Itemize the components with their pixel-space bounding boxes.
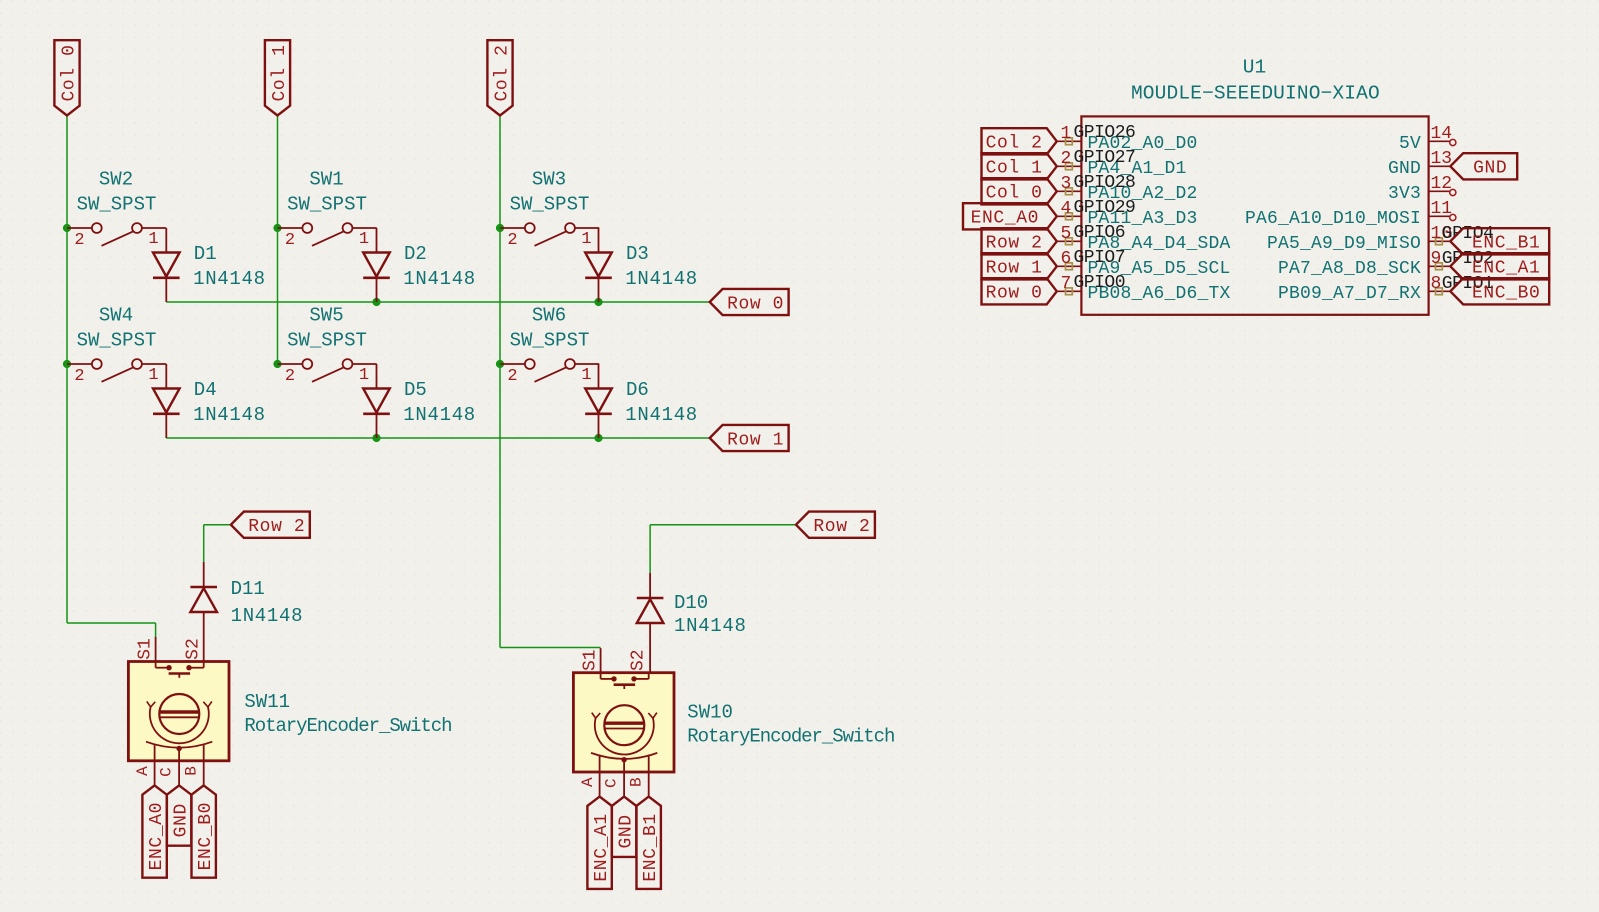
U1 pin 5 (PA8_A4_D4_SDA) [1057,224,1231,254]
svg-text:2: 2 [74,367,84,386]
svg-text:2: 2 [285,367,295,386]
svg-text:1N4148: 1N4148 [625,404,698,426]
svg-text:D6: D6 [626,379,649,401]
hierarchical label Col 1 (top) [265,40,290,115]
svg-text:A: A [134,766,152,776]
svg-text:B: B [182,766,200,776]
wire Row 0 [166,301,709,303]
svg-text:1N4148: 1N4148 [193,268,266,290]
svg-text:8: 8 [1431,274,1442,294]
svg-text:14: 14 [1431,124,1453,144]
junction Row0/D3 [594,298,602,306]
svg-text:Col 1: Col 1 [270,44,290,101]
svg-text:1: 1 [581,366,591,385]
junction Col0/SW2 [63,224,71,232]
svg-text:ENC_B1: ENC_B1 [1472,234,1540,254]
svg-text:12: 12 [1431,174,1453,194]
rotary encoder SW10 [573,648,894,797]
U1 pin 8 (PB09_A7_D7_RX) [1278,274,1450,304]
svg-text:1N4148: 1N4148 [403,404,476,426]
hierarchical label Col 0 (top) [54,40,79,115]
svg-text:GND: GND [1473,159,1507,179]
switch SW2 [67,169,166,251]
svg-text:PA6_A10_D10_MOSI: PA6_A10_D10_MOSI [1245,209,1421,229]
svg-text:1N4148: 1N4148 [193,404,266,426]
diode D5 [363,364,476,438]
svg-text:ENC_B1: ENC_B1 [641,813,661,881]
hierarchical label Col 2 (top) [487,40,512,115]
svg-text:3: 3 [1060,174,1071,194]
junction Col0/SW4 [63,360,71,368]
svg-text:13: 13 [1431,149,1453,169]
svg-text:ENC_B0: ENC_B0 [196,802,216,870]
svg-text:SW10: SW10 [687,702,733,724]
hierarchical label ENC_A1 (U1) [1450,253,1549,279]
svg-text:U1: U1 [1243,56,1266,78]
U1 pin 1 (PA02_A0_D0) [1057,124,1198,154]
diode D10 [637,573,747,673]
svg-text:Col 2: Col 2 [492,44,512,101]
svg-text:1N4148: 1N4148 [403,268,476,290]
svg-text:PB09_A7_D7_RX: PB09_A7_D7_RX [1278,284,1421,304]
svg-text:SW4: SW4 [99,305,133,327]
svg-text:ENC_A0: ENC_A0 [971,209,1039,229]
svg-text:Col 0: Col 0 [986,184,1043,204]
svg-text:1N4148: 1N4148 [231,605,304,627]
svg-text:PA5_A9_D9_MISO: PA5_A9_D9_MISO [1267,234,1421,254]
junction Row0/D2 [372,298,380,306]
U1 pin 9 (PA7_A8_D8_SCK) [1278,249,1450,279]
hierarchical label Row 2 (right) [796,512,875,538]
hierarchical label ENC_B1 [637,797,662,889]
U1 pin 3 (PA10_A2_D2) [1057,174,1198,204]
switch SW3 [500,169,599,251]
svg-text:A: A [579,777,597,787]
svg-text:MOUDLE−SEEEDUINO−XIAO: MOUDLE−SEEEDUINO−XIAO [1131,83,1380,105]
junction Col2/SW3 [496,224,504,232]
svg-text:S1: S1 [580,649,600,671]
svg-text:1: 1 [359,366,369,385]
diode D2 [363,228,476,302]
diode D11 [190,562,303,662]
hierarchical label GND (U1) [1450,153,1517,179]
U1 pin 7 (PB08_A6_D6_TX) [1057,274,1231,304]
svg-text:C: C [603,778,621,788]
hierarchical label Col 2 (U1) [982,128,1057,154]
svg-text:GND: GND [171,803,191,837]
U1 pin 2 (PA4_A1_D1) [1057,149,1187,179]
U1 pin 11 (PA6_A10_D10_MOSI) [1245,199,1456,229]
svg-text:GPIO0: GPIO0 [1074,273,1126,293]
svg-text:ENC_A1: ENC_A1 [592,813,612,881]
svg-text:S2: S2 [629,649,649,671]
svg-text:SW_SPST: SW_SPST [287,194,367,216]
wire Row 2 right [650,524,796,526]
svg-text:SW11: SW11 [244,691,290,713]
svg-text:1: 1 [148,366,158,385]
svg-text:D4: D4 [194,379,217,401]
svg-text:1: 1 [581,230,591,249]
svg-text:D10: D10 [674,592,708,614]
svg-text:SW3: SW3 [532,169,566,191]
svg-text:2: 2 [507,231,517,250]
svg-text:2: 2 [507,367,517,386]
wire Row 2 right drop to D10 [649,525,651,573]
wire Row 1 [166,437,709,439]
diode D6 [585,364,698,438]
svg-text:Col 0: Col 0 [59,44,79,101]
svg-text:2: 2 [285,231,295,250]
wire Col0 to SW11 S1 [67,622,156,624]
hierarchical label GND (SW11) [167,785,192,845]
wire Col2 vertical [499,116,501,648]
svg-text:D5: D5 [404,379,427,401]
switch SW4 [67,305,166,387]
hierarchical label ENC_B0 [192,785,217,877]
svg-text:C: C [158,767,176,777]
svg-text:SW_SPST: SW_SPST [287,330,367,352]
diode D1 [153,228,266,302]
wire Col0 vertical [66,116,68,624]
svg-text:9: 9 [1431,249,1442,269]
svg-text:Row 2: Row 2 [986,234,1043,254]
svg-text:3V3: 3V3 [1388,184,1421,204]
svg-text:SW2: SW2 [99,169,133,191]
svg-text:PA7_A8_D8_SCK: PA7_A8_D8_SCK [1278,259,1421,279]
svg-text:D1: D1 [194,243,217,265]
svg-text:D2: D2 [404,243,427,265]
hierarchical label Col 1 (U1) [982,153,1057,179]
svg-text:1: 1 [148,230,158,249]
hierarchical label Row 0 [710,289,789,315]
svg-text:2: 2 [74,231,84,250]
svg-text:GPIO27: GPIO27 [1074,148,1136,168]
svg-text:B: B [627,777,645,787]
hierarchical label ENC_A0 [142,785,167,877]
svg-text:ENC_A1: ENC_A1 [1472,259,1540,279]
svg-text:S1: S1 [135,638,155,660]
svg-text:GPIO7: GPIO7 [1074,248,1126,268]
switch SW1 [278,169,377,251]
hierarchical label ENC_A0 (U1) [963,203,1057,229]
switch SW5 [278,305,377,387]
wire SW11 S1 drop [155,623,157,638]
junction Col1/SW1 [273,224,281,232]
hierarchical label ENC_A1 [587,797,612,889]
switch SW6 [500,305,599,387]
hierarchical label Row 2 (U1) [982,228,1057,254]
svg-text:D11: D11 [231,578,265,600]
svg-text:Col 2: Col 2 [986,134,1043,154]
svg-text:GPIO28: GPIO28 [1074,173,1136,193]
U1 pin 13 (GND) [1388,149,1452,179]
svg-text:GPIO26: GPIO26 [1074,123,1136,143]
svg-text:Row 1: Row 1 [727,430,784,450]
U1 pin 12 (3V3) [1388,174,1456,204]
svg-text:RotaryEncoder_Switch: RotaryEncoder_Switch [687,726,894,748]
svg-text:Row 1: Row 1 [986,259,1043,279]
svg-text:1: 1 [359,230,369,249]
hierarchical label Col 0 (U1) [982,178,1057,204]
junction Col2/SW6 [496,360,504,368]
svg-text:ENC_B0: ENC_B0 [1472,284,1540,304]
svg-text:GND: GND [616,814,636,848]
svg-text:Row 0: Row 0 [727,294,784,314]
svg-text:ENC_A0: ENC_A0 [147,802,167,870]
svg-text:1: 1 [1060,124,1071,144]
svg-text:5: 5 [1060,224,1071,244]
U1 pin 10 (PA5_A9_D9_MISO) [1267,224,1452,254]
svg-text:6: 6 [1060,249,1071,269]
hierarchical label Row 2 (left) [231,512,310,538]
svg-text:D3: D3 [626,243,649,265]
hierarchical label Row 0 (U1) [982,278,1057,304]
diode D3 [585,228,698,302]
svg-text:GPIO29: GPIO29 [1074,198,1136,218]
svg-text:11: 11 [1431,199,1453,219]
svg-text:RotaryEncoder_Switch: RotaryEncoder_Switch [244,715,451,737]
wire Row 2 left [204,524,231,526]
svg-text:1N4148: 1N4148 [674,615,747,637]
svg-text:S2: S2 [184,638,204,660]
U1 pin 4 (PA11_A3_D3) [1057,199,1198,229]
wire Col2 to SW10 S1 [500,647,601,649]
wire Col1 vertical [277,116,279,365]
diode D4 [153,364,266,438]
svg-text:SW_SPST: SW_SPST [77,330,157,352]
svg-text:SW_SPST: SW_SPST [510,330,590,352]
svg-text:SW5: SW5 [309,305,343,327]
wire Row 2 left drop to D11 [203,525,205,562]
svg-text:5V: 5V [1399,134,1421,154]
svg-text:SW_SPST: SW_SPST [510,194,590,216]
svg-text:7: 7 [1060,274,1071,294]
svg-text:SW6: SW6 [532,305,566,327]
junction Row1/D6 [594,434,602,442]
IC U1 MOUDLE-SEEEDUINO-XIAO body [1081,56,1428,315]
svg-text:Row 2: Row 2 [248,517,305,537]
hierarchical label GND (SW10) [612,797,637,857]
junction Col1/SW5 [273,360,281,368]
hierarchical label ENC_B0 (U1) [1450,278,1549,304]
svg-text:Row 2: Row 2 [813,517,870,537]
svg-text:2: 2 [1060,149,1071,169]
U1 pin 14 (5V) [1399,124,1456,154]
hierarchical label Row 1 (U1) [982,253,1057,279]
svg-text:GPIO6: GPIO6 [1074,223,1126,243]
hierarchical label ENC_B1 (U1) [1450,228,1549,254]
svg-text:GND: GND [1388,159,1421,179]
svg-text:Col 1: Col 1 [986,159,1043,179]
rotary encoder SW11 [128,637,451,786]
junction Row1/D5 [372,434,380,442]
svg-text:SW1: SW1 [309,169,343,191]
hierarchical label Row 1 [710,425,789,451]
svg-text:Row 0: Row 0 [986,284,1043,304]
U1 pin 6 (PA9_A5_D5_SCL) [1057,249,1231,279]
svg-text:1N4148: 1N4148 [625,268,698,290]
svg-text:SW_SPST: SW_SPST [77,194,157,216]
svg-text:4: 4 [1060,199,1071,219]
